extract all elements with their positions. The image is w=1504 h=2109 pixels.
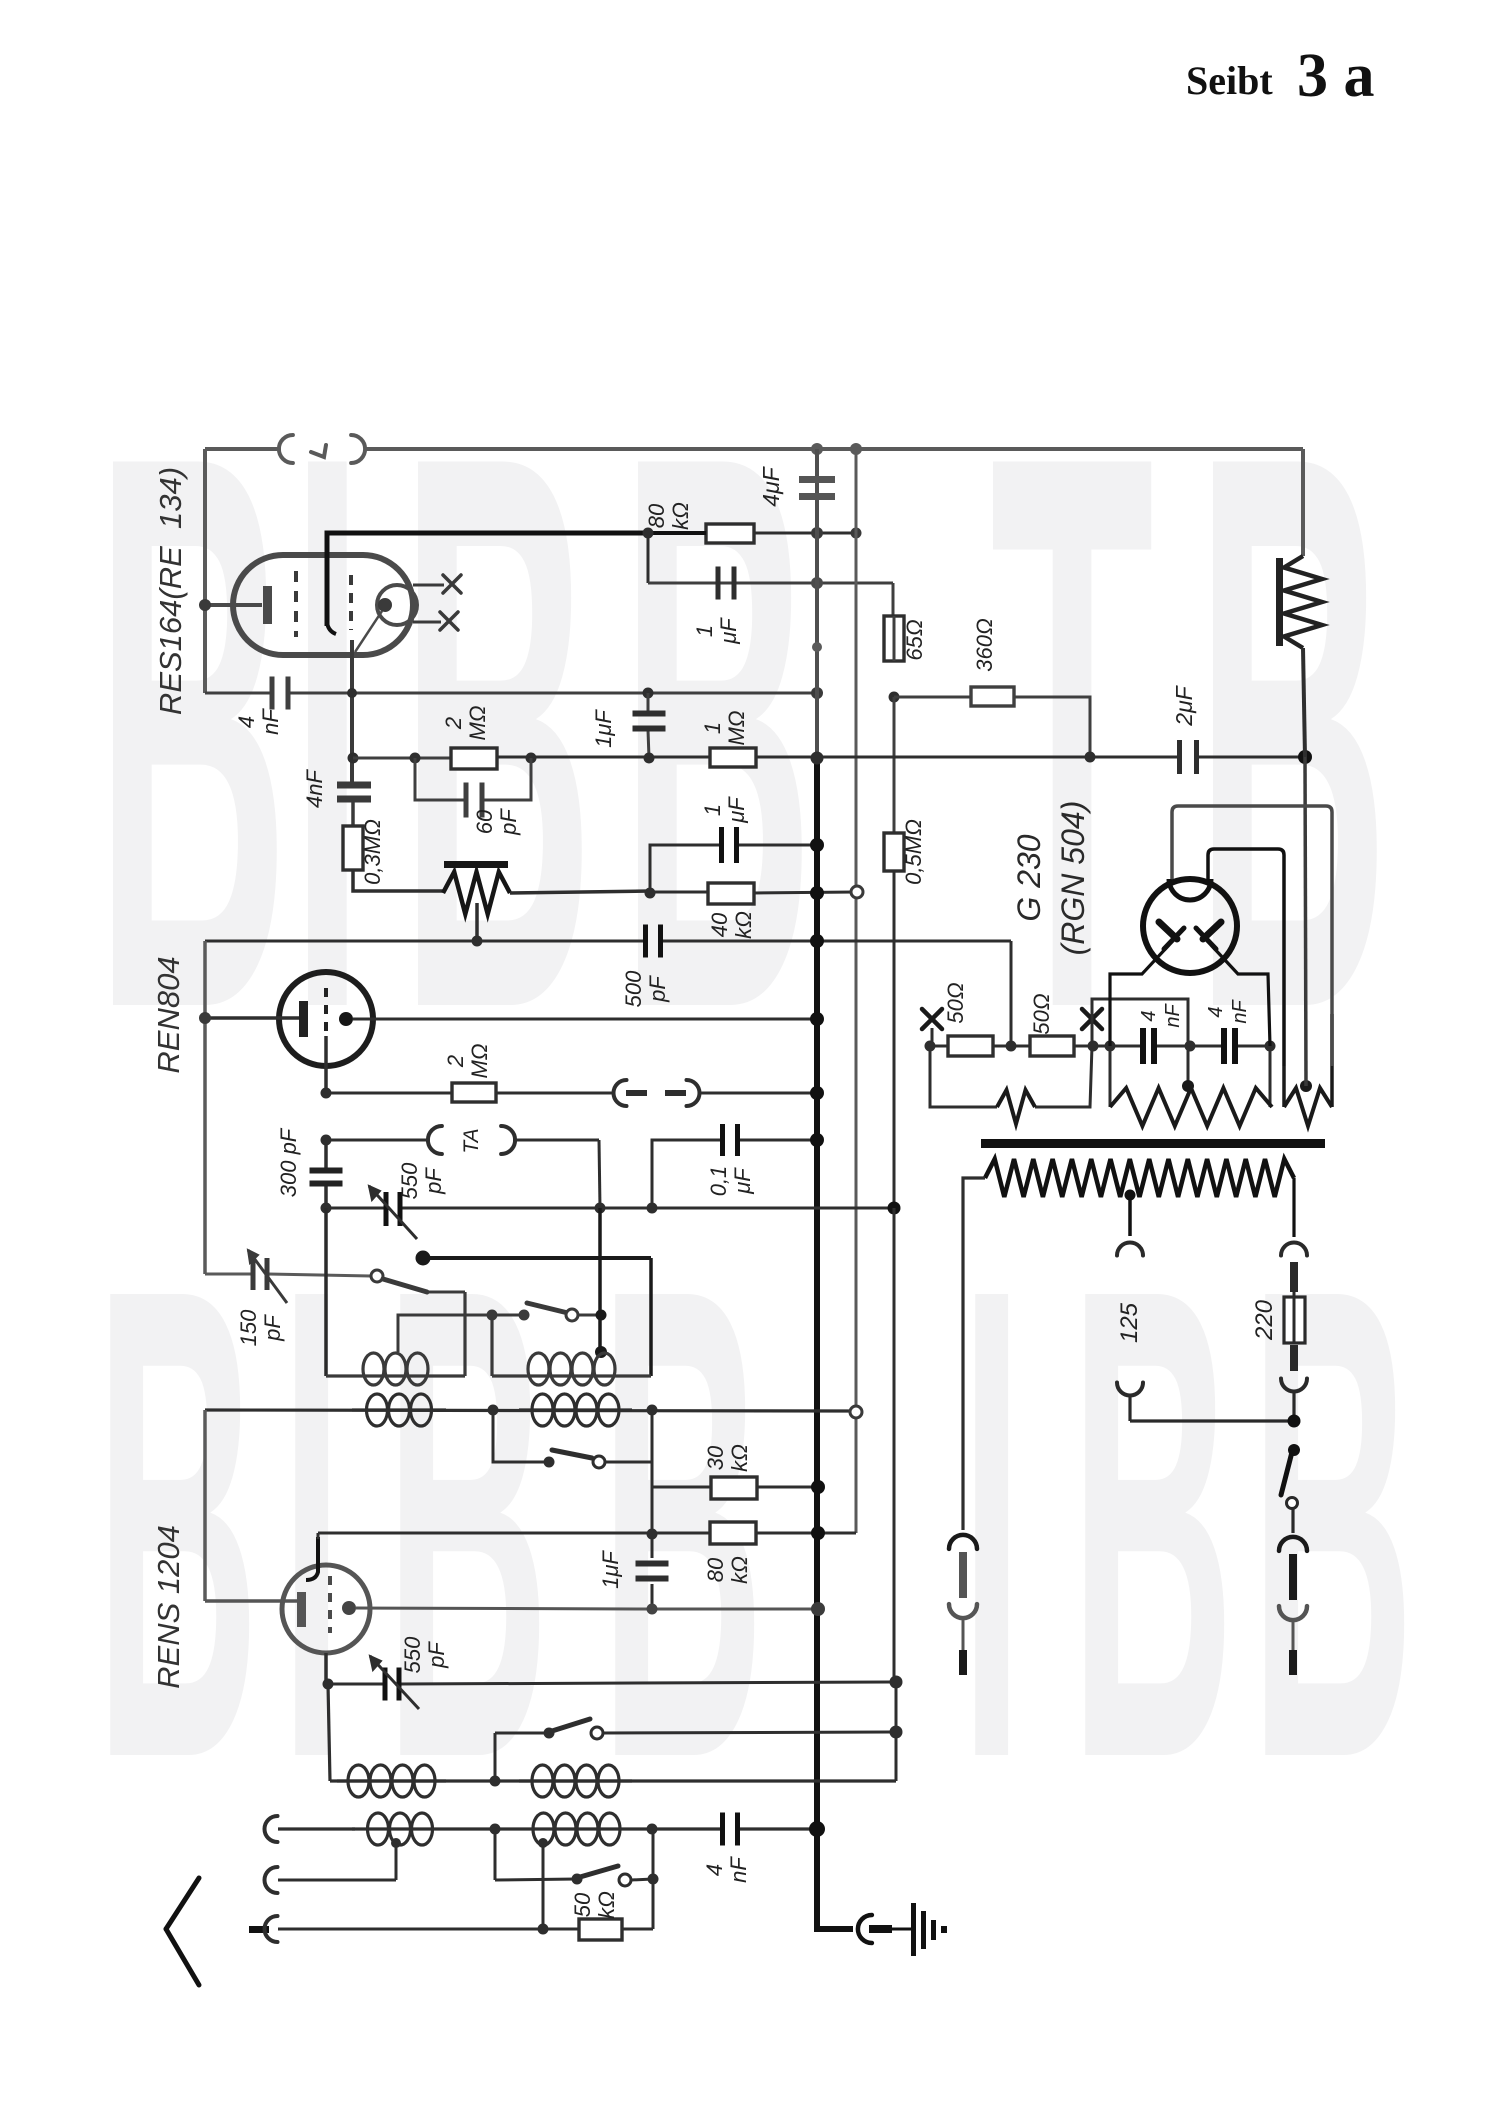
svg-text:125: 125: [1116, 1302, 1143, 1343]
tube V3 RENS1204 envelope: [282, 1565, 370, 1653]
wire riser 80k-left to 1uF row: [647, 533, 650, 583]
wire row y=941: [205, 940, 477, 943]
node row1929 x=543: [538, 1924, 549, 1935]
resistor R5 2M grid leak: [451, 748, 497, 769]
switch S5 antenna (open): [494, 1829, 497, 1880]
resistor R14 50 Ohm: [948, 1036, 993, 1056]
capacitor C12 550pF variable plates: [384, 1192, 389, 1226]
bus main rail lower part (thick): [817, 760, 853, 1929]
node top rail / second bus: [850, 443, 862, 455]
tube V4 left electrode: [1159, 922, 1177, 939]
svg-text:pF: pF: [421, 1167, 446, 1195]
svg-text:I: I: [280, 1150, 343, 1898]
wire top-cap row corner: [317, 1533, 320, 1539]
antenna symbol: [166, 1878, 199, 1929]
wire row y=1880 left: [278, 1879, 396, 1882]
tube V2 anode dot: [339, 1012, 353, 1026]
tube V1 RES164(RE 134) envelope: [233, 555, 413, 655]
wire row y=1929: [278, 1928, 579, 1931]
tube V4 dome: [1169, 879, 1211, 900]
svg-text:4nF: 4nF: [302, 768, 327, 807]
node filament row x=930: [925, 1041, 936, 1052]
tube V1 grid lead: [205, 603, 262, 607]
coil L1 left lead from x=326: [324, 1208, 328, 1376]
wire L2 left riser: [490, 1315, 493, 1376]
capacitor C6 2uF plates: [1177, 740, 1182, 774]
svg-text:B: B: [95, 1150, 260, 1898]
tube V2 cathode lead: [324, 1036, 328, 1093]
wire 40k to rails: [754, 892, 856, 893]
tube V2 REN804 envelope: [279, 972, 373, 1066]
second rail x=856: [855, 449, 858, 1533]
wire 50ohm row links: [930, 1045, 948, 1048]
wire row y=1140 TA segment: [326, 1139, 430, 1142]
tube V2 grid dashed: [324, 988, 328, 1036]
connector J15 mains plug left lower: [949, 1604, 977, 1618]
coil L7 winding: [352, 1827, 448, 1830]
svg-text:550: 550: [400, 1636, 425, 1673]
connector J2 pickup jack: [614, 1080, 627, 1106]
wire row y=1781 osc coils: [328, 1684, 330, 1781]
wire caps center to hum pot: [1187, 1046, 1190, 1086]
svg-text:Seibt: Seibt: [1186, 58, 1273, 103]
node anode row x=652: [647, 1604, 658, 1615]
svg-text:pF: pF: [645, 975, 670, 1003]
wire 50k right corner up: [622, 1928, 653, 1931]
tube V3 anode lead to rails: [356, 1608, 652, 1609]
coil L4 winding: [519, 1408, 632, 1411]
node mains switch top: [1288, 1415, 1301, 1428]
svg-text:pF: pF: [424, 1641, 449, 1669]
node row1093 bus: [810, 1086, 824, 1100]
svg-text:50Ω: 50Ω: [943, 982, 968, 1023]
wire row y=1829: [278, 1827, 355, 1830]
svg-text:MΩ: MΩ: [467, 1043, 492, 1078]
connector J13 mains plug right lower: [1279, 1606, 1307, 1620]
capacitor C3 4uF plates: [799, 476, 835, 483]
fuse pin upper: [1290, 1262, 1298, 1292]
wire right rail x=896 lower: [893, 1208, 896, 1682]
wire riser x=653: [652, 1829, 655, 1929]
switch S4 feedback (open): [495, 1732, 549, 1735]
node row1487 bus: [811, 1480, 825, 1494]
resistor R9 40k: [708, 883, 754, 904]
svg-text:4μF: 4μF: [758, 465, 784, 506]
node HT right column top: [1298, 750, 1312, 764]
svg-text:μF: μF: [716, 617, 741, 645]
wire rect anode loop inner: [1208, 849, 1284, 1066]
svg-text:2: 2: [443, 1055, 468, 1068]
wire 360 Ohm to HT corner: [1014, 697, 1090, 756]
resistor R8 0.3M: [343, 826, 363, 870]
capacitor C1 4nF plates: [270, 677, 275, 710]
capacitor C18 4nF plates: [1221, 1028, 1227, 1064]
terminal ring row1408 second rail: [850, 1406, 862, 1418]
bus main HT/ground rail upper part: [815, 449, 819, 762]
svg-text:pF: pF: [496, 808, 521, 836]
svg-text:TA: TA: [460, 1128, 483, 1153]
svg-text:0,5MΩ: 0,5MΩ: [901, 819, 926, 885]
svg-text:kΩ: kΩ: [594, 1891, 619, 1919]
coil L2 winding: [492, 1374, 651, 1377]
pot wiper to row941: [475, 903, 479, 941]
node row1408 x=652: [647, 1405, 658, 1416]
resistor R1 80k: [706, 524, 754, 543]
fuse F1 220: [1284, 1297, 1305, 1343]
wire row941 to filament center tap: [1010, 941, 1013, 1046]
node row1829 bus: [809, 1821, 825, 1837]
tube V1 top-cap grid lead (black): [327, 533, 648, 626]
node row845 bus: [810, 838, 824, 852]
node caps right: [1265, 1041, 1276, 1052]
svg-text:1: 1: [700, 804, 725, 816]
tube V1 grid (dashed): [294, 571, 298, 637]
svg-text:kΩ: kΩ: [727, 1444, 752, 1472]
wire corner down to 65 Ohm: [892, 583, 895, 616]
coil L6 winding: [519, 1779, 632, 1782]
transformer T1 core: [981, 1139, 1325, 1148]
wire primary left lead: [963, 1178, 985, 1530]
wire left column middle (REN804 loop): [203, 941, 207, 1274]
ground pin bar: [869, 1925, 892, 1933]
wire cathode to 0.3M: [351, 799, 355, 826]
wire top rail y=449 left segment: [205, 447, 281, 451]
heater terminal X left: [922, 1009, 942, 1029]
svg-text:MΩ: MΩ: [465, 705, 490, 740]
node row1208 x=652: [647, 1203, 658, 1214]
connector J11 220V socket lower: [1281, 1379, 1307, 1392]
capacitor C13 150pF trimmer plates: [205, 1273, 252, 1276]
wire 0.5M column upper: [893, 616, 896, 661]
svg-text:pF: pF: [260, 1314, 285, 1342]
node 2M right: [526, 753, 537, 764]
svg-text:2: 2: [441, 717, 466, 730]
connector J3 TA jack: [428, 1126, 442, 1154]
resistor R3 360 Ohm: [971, 687, 1014, 706]
capacitor C7 4nF plates (cathode): [337, 782, 371, 789]
node top rail / bus: [811, 443, 823, 455]
wire top rail y=449 main segment: [364, 447, 1303, 451]
svg-text:MΩ: MΩ: [724, 710, 749, 745]
svg-text:1: 1: [700, 722, 725, 734]
node row1258 stub: [416, 1251, 431, 1266]
wire left column upper (RES164 loop): [203, 449, 207, 693]
connector J6 antenna lead-in jack: [265, 1916, 278, 1942]
svg-text:(RGN 504): (RGN 504): [1055, 801, 1091, 956]
node filament row x=1093: [1088, 1041, 1099, 1052]
wire 0.5M column lower: [893, 871, 896, 1208]
resistor R7 dropper with bar: [1276, 558, 1283, 646]
node cathode row1140: [321, 1135, 332, 1146]
wire loop 40k bypass: [650, 845, 722, 893]
tube V1 screen grid (dashed): [349, 575, 353, 630]
connector J14 mains plug left upper: [949, 1535, 977, 1549]
svg-text:0,1: 0,1: [706, 1166, 731, 1197]
capacitor C10 0.1uF plates: [720, 1124, 725, 1156]
node filament row x=1110: [1105, 1041, 1116, 1052]
wire row y=583 (anode bypass): [648, 582, 893, 585]
resistor R11 30k: [711, 1477, 757, 1499]
coil L1 center tap: [398, 1315, 492, 1352]
wire primary right lead: [1292, 1178, 1295, 1237]
svg-text:G 230: G 230: [1011, 834, 1047, 921]
svg-text:REN804: REN804: [151, 956, 186, 1073]
node 65ohm bottom: [889, 692, 900, 703]
node filament row center: [1006, 1041, 1017, 1052]
tube V3 anode dot: [342, 1601, 356, 1615]
node row1140 bus: [810, 1133, 824, 1147]
svg-text:65Ω: 65Ω: [902, 619, 927, 660]
parallel loop for 60pF: [415, 758, 466, 800]
svg-text:50Ω: 50Ω: [1029, 993, 1054, 1034]
node row693 riser: [643, 688, 654, 699]
tube V1 heater lead upper with terminal X: [413, 584, 444, 587]
svg-text:4: 4: [702, 1864, 727, 1876]
svg-text:150: 150: [236, 1309, 261, 1346]
svg-text:kΩ: kΩ: [668, 502, 693, 530]
coil L8 tap riser: [542, 1843, 545, 1929]
connector J5 antenna jack 2: [265, 1867, 278, 1893]
ground symbol: [911, 1903, 916, 1956]
tube V3 top-cap lead: [306, 1537, 318, 1580]
coil L7 center tap: [395, 1843, 398, 1880]
resistor R16 hum zigzag: [997, 1090, 1035, 1124]
node row1684 right rail: [890, 1676, 903, 1689]
wire vertical x=600 to coil tap: [598, 1208, 602, 1352]
tube V3 grid lead: [205, 1599, 297, 1603]
mains pin right: [1289, 1554, 1297, 1600]
svg-text:360Ω: 360Ω: [972, 618, 997, 671]
wire corner x=651 to L2 right end: [649, 1258, 653, 1376]
potentiometer P1 track bar: [444, 861, 508, 868]
switch S6 mains (open): [1288, 1444, 1300, 1456]
node cathode row1684: [323, 1679, 334, 1690]
coil L8 winding: [519, 1827, 634, 1830]
node riser row758: [644, 753, 655, 764]
svg-text:1: 1: [692, 625, 717, 637]
wire S4 riser: [494, 1733, 497, 1781]
node output hum center: [1300, 1080, 1312, 1092]
tube V3 grid dashed: [328, 1576, 332, 1633]
switch S1 wave-range (open): [371, 1270, 383, 1282]
potentiometer P1 element: [443, 872, 510, 914]
connector J9 tap socket lower: [1117, 1383, 1143, 1396]
node cathode/row758: [348, 753, 359, 764]
svg-text:B: B: [385, 1150, 550, 1898]
wire 0.3M to volume pot: [353, 870, 443, 891]
wire tap row to switch column: [1130, 1419, 1294, 1422]
capacitor C17 4nF plates: [1140, 1028, 1146, 1064]
capacitor C8 1uF plates: [719, 827, 724, 863]
capacitor C14 1uF plates (series riser): [651, 1533, 654, 1558]
svg-text:0,3MΩ: 0,3MΩ: [360, 819, 385, 885]
svg-text:μF: μF: [724, 796, 749, 824]
wire TA corner down: [599, 1140, 600, 1208]
mains pin left lower: [959, 1650, 967, 1675]
node row1829 x=495: [490, 1824, 501, 1835]
wire pot right to node: [510, 891, 650, 893]
svg-text:RES164(RE 134): RES164(RE 134): [153, 467, 188, 715]
node 40k left: [645, 888, 656, 899]
capacitor C2 1uF plates: [716, 567, 721, 600]
tube V2 grid bar: [299, 1001, 308, 1037]
wire row y=1093: [326, 1092, 452, 1095]
wire S2 pivot: [492, 1314, 524, 1317]
resistor R4 0.5M: [884, 833, 904, 871]
capacitor C16 4nF plates: [720, 1813, 725, 1846]
capacitor C15 550pF variable plates: [383, 1668, 388, 1701]
wire L7-L8 link: [448, 1827, 519, 1830]
svg-text:4: 4: [1205, 1006, 1227, 1017]
node tap/S2: [487, 1310, 498, 1321]
capacitor C5 1uF plates (series riser): [647, 693, 650, 713]
wire row y=1684: [328, 1683, 384, 1686]
node row1733 right rail: [890, 1726, 903, 1739]
connector J12 mains plug right upper: [1279, 1537, 1307, 1551]
svg-text:3 a: 3 a: [1297, 42, 1375, 110]
capacitor C9 500pF plates: [643, 925, 648, 958]
node cathode row1093: [321, 1088, 332, 1099]
mains pin right lower: [1289, 1650, 1297, 1675]
coil L1 winding: [326, 1374, 465, 1377]
wire S2 to x=600: [578, 1314, 601, 1317]
node row941 bus: [810, 934, 824, 948]
svg-text:kΩ: kΩ: [731, 911, 756, 939]
svg-text:B: B: [1250, 1150, 1415, 1898]
tube V4 filament lead right: [1211, 945, 1270, 1046]
resistor R17 hum zigzag (rectifier): [1109, 1046, 1112, 1107]
wire row y=1531 80k: [318, 1532, 710, 1535]
svg-text:500: 500: [621, 970, 646, 1007]
resistor R6 1M: [710, 748, 756, 767]
svg-text:30: 30: [703, 1445, 728, 1470]
switch S3 shorting (open): [493, 1410, 549, 1462]
svg-text:80: 80: [644, 503, 669, 528]
resistor R18 output hum zigzag: [1282, 1066, 1286, 1107]
tube V1 cathode bar: [263, 586, 272, 624]
svg-text:4: 4: [1138, 1010, 1160, 1021]
wire rect anode loop outer: [1172, 806, 1332, 1066]
wire rect filament left lead: [1093, 1045, 1140, 1048]
node caps center: [1185, 1041, 1196, 1052]
coil L5 winding: [337, 1779, 446, 1782]
tube V1 cathode lead down: [350, 640, 354, 783]
connector J10 220V socket: [1281, 1243, 1307, 1256]
wire 0.1uF segment: [652, 1140, 723, 1208]
fuse pin lower: [1290, 1345, 1298, 1371]
svg-text:kΩ: kΩ: [727, 1556, 752, 1584]
tube V1 anode internal lead: [355, 611, 382, 652]
wire primary center tap 125V: [1128, 1194, 1132, 1236]
wire left column lower (RENS loop): [203, 1410, 207, 1601]
tube V1 anode dot: [378, 598, 392, 612]
svg-text:220: 220: [1251, 1299, 1278, 1341]
wire riser x=652 (osc to anode rows): [651, 1410, 654, 1545]
svg-text:1μF: 1μF: [591, 709, 616, 748]
capacitor C11 300pF plates (series riser): [324, 1140, 328, 1168]
wire dropper to HT node: [1303, 648, 1305, 757]
svg-text:I: I: [960, 1150, 1023, 1898]
wire X2 to rectifier filament bracket: [1092, 999, 1188, 1046]
wire black row y=1258: [423, 1256, 651, 1260]
svg-text:40: 40: [707, 912, 732, 937]
wire S1 to L1 right end: [463, 1292, 466, 1376]
node row1208 x=894: [888, 1202, 901, 1215]
resistor R12 80k: [710, 1522, 756, 1544]
svg-text:nF: nF: [1229, 999, 1251, 1024]
wire HT to output hum center: [1305, 757, 1306, 1086]
node anode row bus: [811, 1602, 825, 1616]
coil L3 winding: [352, 1408, 446, 1411]
svg-text:B: B: [400, 291, 594, 1173]
node row583 bus: [811, 577, 823, 589]
node row1208 x=600: [595, 1203, 606, 1214]
connector J8 tap socket: [1117, 1243, 1143, 1256]
resistor R15 50 Ohm: [1030, 1036, 1074, 1056]
svg-text:nF: nF: [726, 1856, 751, 1883]
node row1531 bus: [811, 1526, 825, 1540]
svg-text:4: 4: [234, 716, 259, 728]
capacitor C4 60pF plates: [464, 783, 469, 818]
svg-text:50: 50: [570, 1892, 595, 1917]
svg-text:nF: nF: [258, 708, 283, 735]
resistor R13 50k: [579, 1919, 622, 1940]
svg-text:nF: nF: [1162, 1003, 1184, 1028]
tube V2 anode lead to bus: [353, 1018, 817, 1021]
terminal ring on second rail: [851, 886, 863, 898]
node cathode/row693: [347, 688, 357, 698]
svg-text:550: 550: [397, 1162, 422, 1199]
resistor R10 2M: [452, 1083, 496, 1102]
node row1781 x=495: [490, 1776, 501, 1787]
heater terminal X right: [1082, 1009, 1102, 1029]
svg-text:2μF: 2μF: [1171, 684, 1197, 726]
tube V1 heater lead lower with terminal X: [413, 621, 441, 624]
wire row y=1487 30k: [652, 1486, 711, 1489]
connector J7 ground jack: [858, 1915, 872, 1943]
coil L2 tap blob: [595, 1346, 607, 1358]
resistor R2 65 Ohm: [884, 616, 904, 661]
wire row y=1208 tuning: [326, 1207, 385, 1210]
connector J1 jumper in top rail: [279, 435, 293, 463]
tube V4 right electrode: [1203, 922, 1221, 939]
svg-text:80: 80: [703, 1557, 728, 1582]
tube V2 grid lead: [205, 1016, 299, 1020]
wire row y=758: [353, 757, 451, 760]
node HT row: [1085, 752, 1096, 763]
svg-text:μF: μF: [730, 1167, 755, 1195]
svg-text:RENS 1204: RENS 1204: [151, 1525, 186, 1689]
svg-text:1μF: 1μF: [598, 1550, 623, 1589]
wire row y=1410: [205, 1410, 851, 1411]
node 2M left: [410, 753, 421, 764]
tube V1 anode circle: [377, 585, 417, 625]
wire L8 to 4nF to bus: [634, 1827, 722, 1830]
wire right column from top rail: [1301, 449, 1305, 556]
node row1829 x=652: [647, 1824, 658, 1835]
svg-text:B: B: [1070, 1150, 1235, 1898]
wire row y=697 to 360 Ohm: [894, 696, 971, 699]
node row758 bus: [811, 752, 824, 765]
node row1408 x=493: [488, 1405, 499, 1416]
tube V4 G230 envelope: [1143, 879, 1237, 973]
switch S2 lever (open): [527, 1303, 568, 1313]
tube V3 cathode lead: [324, 1653, 328, 1684]
svg-text:300 pF: 300 pF: [276, 1127, 301, 1197]
stray node on bus: [812, 642, 822, 652]
connector J4 antenna jack 1: [265, 1816, 278, 1842]
tube V4 filament lead left: [1110, 945, 1169, 1046]
